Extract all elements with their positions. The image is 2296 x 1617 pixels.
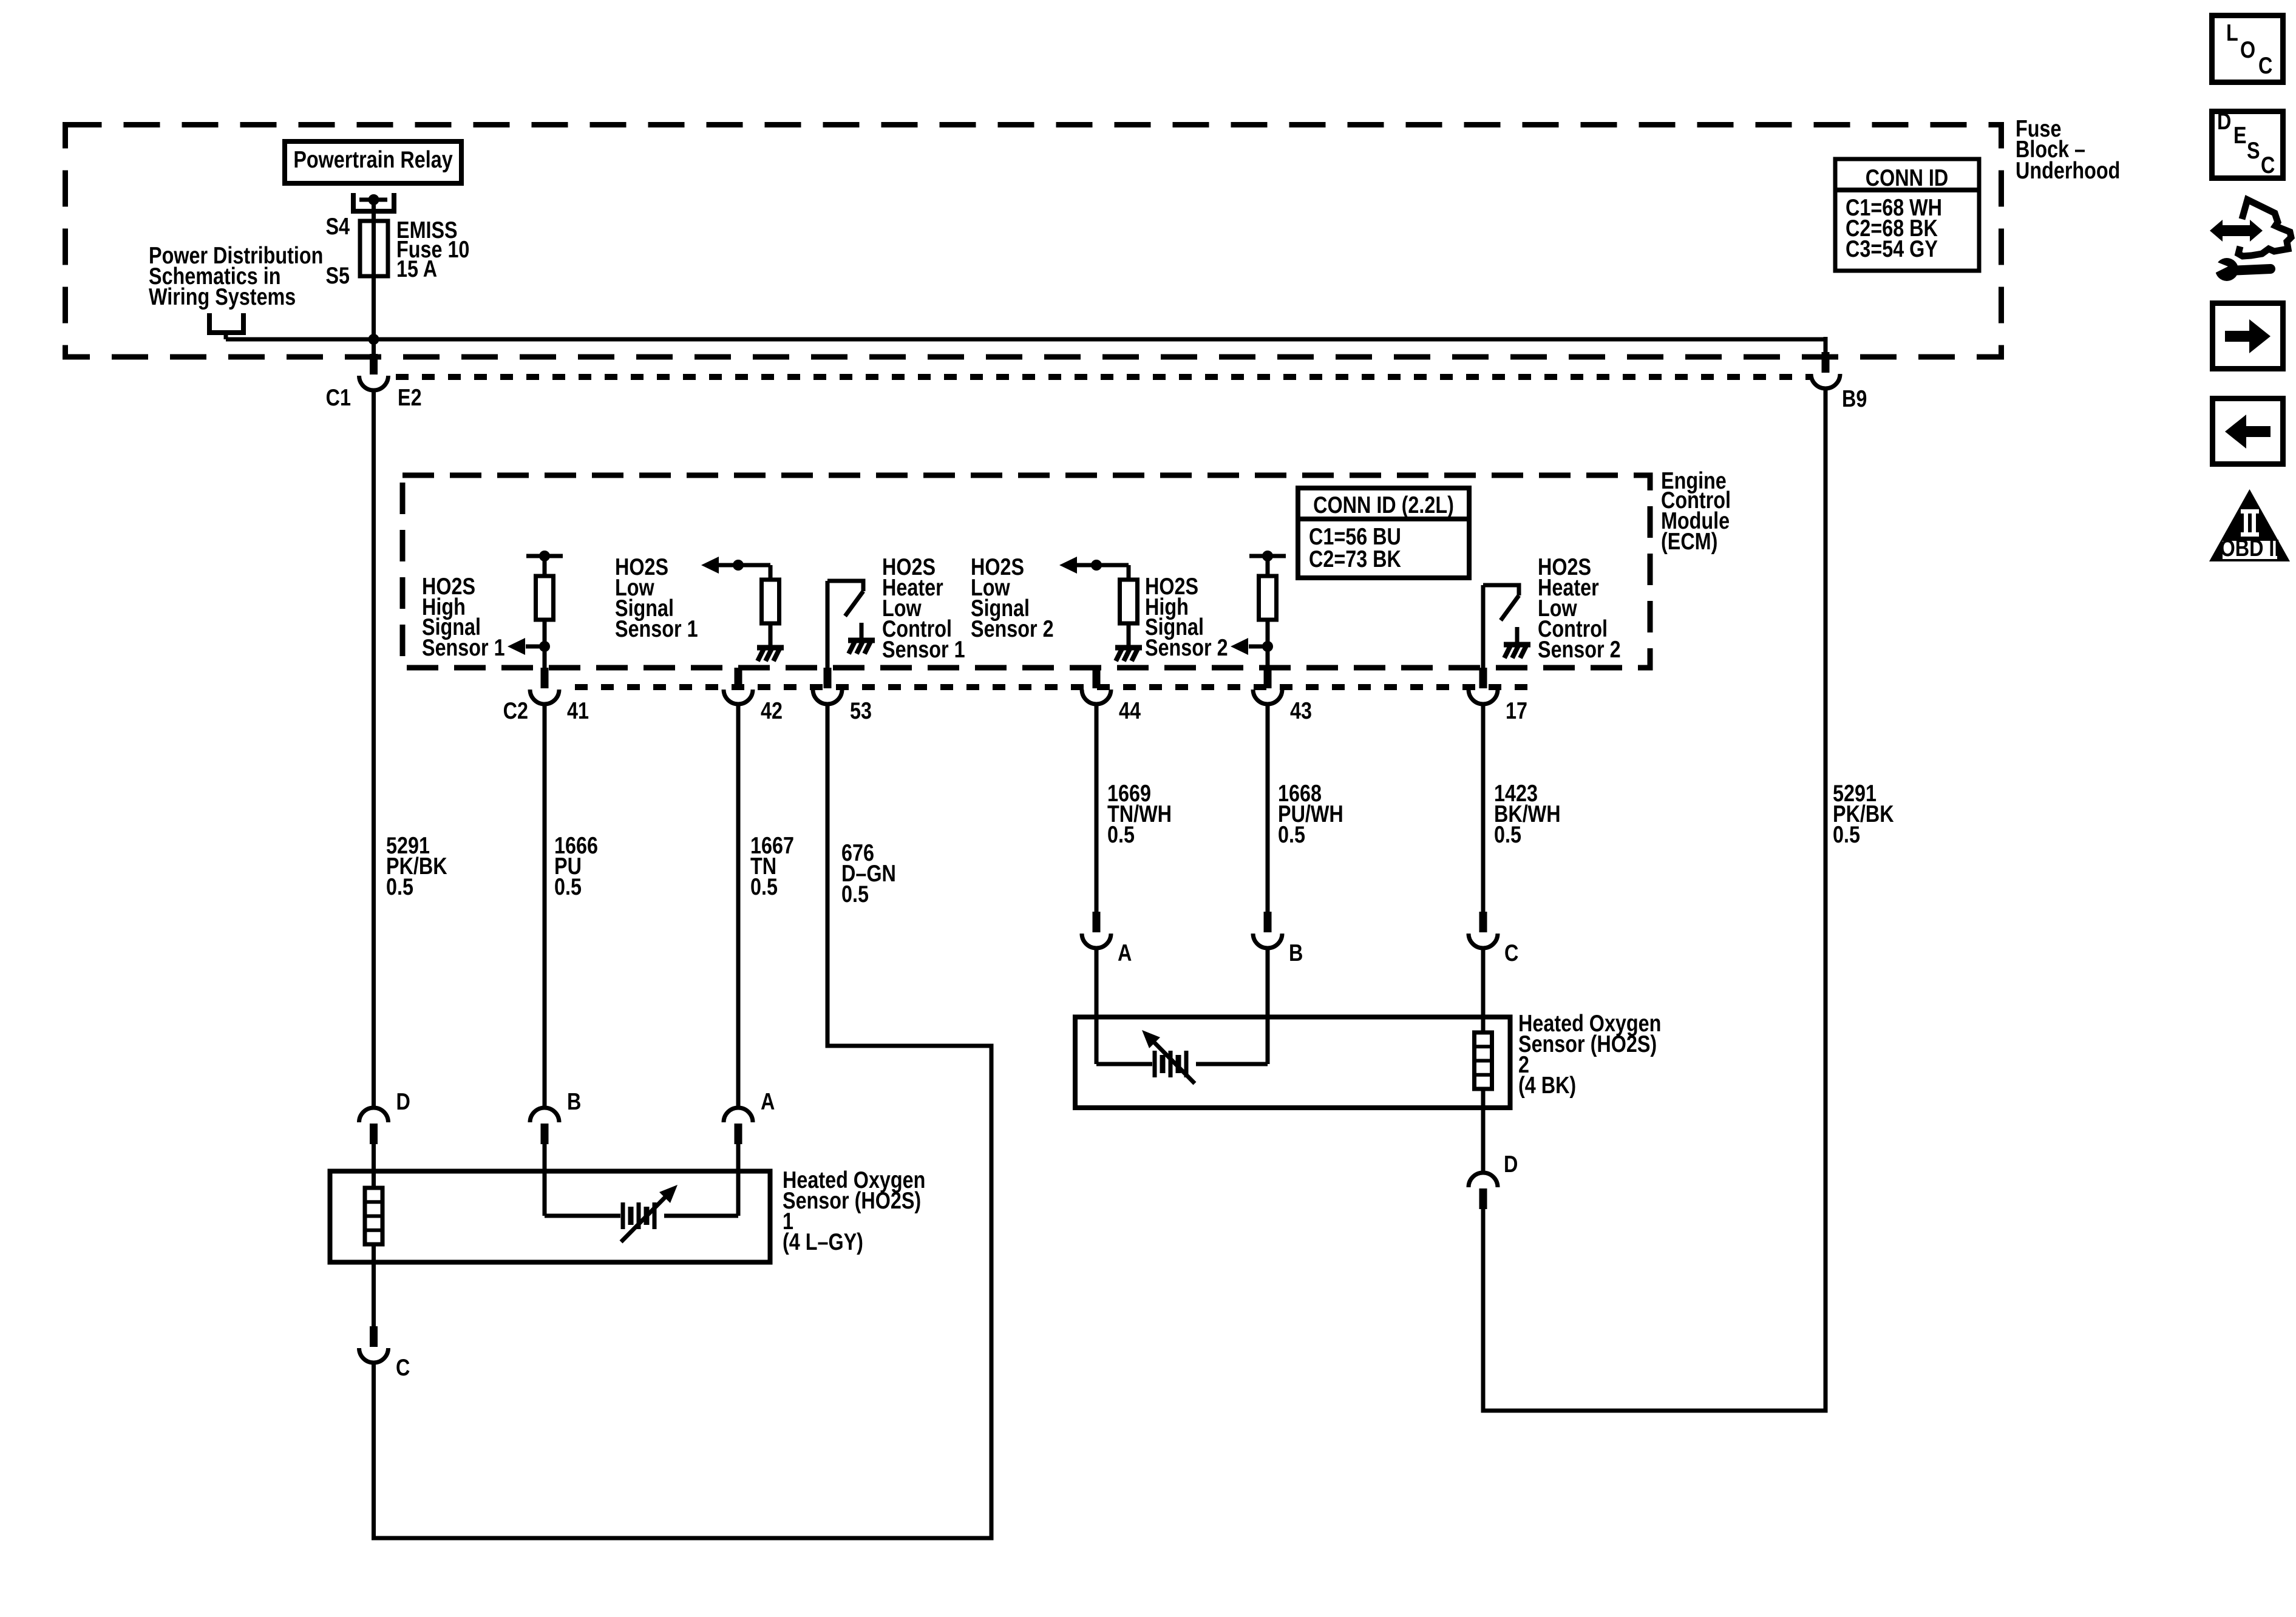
- svg-text:CONN ID: CONN ID: [1866, 164, 1949, 191]
- R-lo-2: resistor body: [1120, 580, 1138, 623]
- R-hi-1: junction dot top: [539, 551, 550, 561]
- icon: adjust hand with wrench: [2210, 200, 2291, 281]
- svg-text:L: L: [2226, 19, 2238, 46]
- svg-text:17: 17: [1506, 697, 1527, 724]
- R-hi-2: junction dot bottom: [1262, 641, 1273, 652]
- label: Fuse Block - Underhood: [2016, 115, 2120, 183]
- svg-text:0.5: 0.5: [1833, 821, 1860, 847]
- connector sensor2 pin D: [1479, 1188, 1487, 1209]
- R-hi-2: junction dot top: [1262, 551, 1273, 561]
- wire: bracket to bus: [224, 333, 228, 339]
- wire: sensor1 internal right lead: [664, 1214, 738, 1218]
- powertrain relay box: [285, 141, 461, 183]
- label: Power Distribution Schematics in Wiring Systems: [149, 242, 323, 310]
- svg-text:E2: E2: [398, 384, 422, 410]
- SW-1: driver switch: [827, 581, 863, 591]
- label: HO2S High Signal Sensor 1: [422, 573, 505, 660]
- svg-text:OBD II: OBD II: [2220, 535, 2280, 561]
- sensor1 cell: element plates: [621, 1202, 625, 1229]
- svg-text:Wiring Systems: Wiring Systems: [149, 283, 296, 310]
- svg-text:0.5: 0.5: [750, 873, 778, 900]
- dotted connector face line E2: [396, 374, 1810, 380]
- wire: [769, 623, 773, 645]
- icon: LOC box: [2212, 16, 2283, 83]
- svg-text:D: D: [1504, 1151, 1518, 1177]
- wire: [543, 556, 547, 576]
- wire 1667 TN: pin 42 to sensor1 A: [736, 702, 741, 1108]
- wire: [543, 620, 547, 668]
- svg-text:(ECM): (ECM): [1661, 528, 1717, 554]
- label: 1669 TN/WH 0.5: [1107, 780, 1172, 847]
- wire: A into sensor1: [736, 1144, 741, 1216]
- icon: arrow right box: [2213, 303, 2283, 369]
- svg-text:(4 L–GY): (4 L–GY): [783, 1229, 863, 1255]
- SW-2: ground stub: [1515, 627, 1520, 642]
- ground: [757, 645, 784, 651]
- sensor2 variable arrow: [1149, 1037, 1195, 1083]
- fuse block underhood dashed box: [66, 125, 2002, 358]
- svg-text:0.5: 0.5: [1278, 821, 1305, 847]
- label: HO2S High Signal Sensor 2: [1145, 573, 1228, 660]
- svg-text:(4 BK): (4 BK): [1518, 1072, 1576, 1098]
- sensor2: heater element: [1475, 1032, 1492, 1089]
- connector sensor2 pin B: [1264, 912, 1272, 932]
- CONN ID (2.2L) table: [1298, 488, 1469, 578]
- svg-text:Underhood: Underhood: [2016, 157, 2120, 183]
- svg-text:C2=73 BK: C2=73 BK: [1309, 546, 1401, 572]
- svg-text:B: B: [567, 1088, 581, 1114]
- icon: OBD II triangle: [2209, 489, 2290, 561]
- wire: sensor2 internal left lead: [1096, 1062, 1152, 1066]
- svg-text:CONN ID (2.2L): CONN ID (2.2L): [1313, 492, 1454, 518]
- svg-text:A: A: [1118, 940, 1132, 966]
- R-hi-1: signal tap arrow: [526, 645, 545, 649]
- R-lo-1: resistor body: [762, 580, 779, 623]
- label: 1423 BK/WH 0.5: [1494, 780, 1561, 847]
- wire: relay to fuse to bus: [372, 200, 376, 354]
- connector pin 43: [1264, 668, 1272, 688]
- wire: A into sensor2: [1095, 948, 1099, 1064]
- wire: B into sensor1: [543, 1144, 547, 1216]
- label: HO2S Low Signal Sensor 2: [971, 554, 1054, 642]
- svg-text:Sensor 2: Sensor 2: [1145, 634, 1228, 660]
- connector pin 41: [541, 668, 549, 688]
- R-hi-1: internal pull-up bar: [526, 554, 563, 558]
- svg-text:0.5: 0.5: [1494, 821, 1521, 847]
- label: 5291 PK/BK 0.5 (right): [1833, 780, 1894, 847]
- wire: sensor2 internal right lead: [1196, 1062, 1268, 1066]
- CONN ID table (fuse block): [1835, 159, 1979, 271]
- R-hi-1: resistor body: [536, 576, 554, 620]
- svg-text:Sensor 1: Sensor 1: [422, 634, 505, 660]
- SW-2: driver switch: [1483, 585, 1519, 595]
- svg-text:C: C: [1504, 940, 1518, 966]
- label: 1667 TN 0.5: [750, 832, 794, 900]
- wire 1668 PU/WH: pin 43 to sensor2 B: [1266, 702, 1270, 912]
- label: HO2S Low Signal Sensor 1: [615, 554, 698, 642]
- svg-text:53: 53: [850, 697, 872, 724]
- svg-text:E: E: [2233, 122, 2247, 148]
- label: 1666 PU 0.5: [554, 832, 598, 900]
- svg-text:C1: C1: [326, 384, 351, 410]
- connector sensor1 pin B: [541, 1124, 549, 1144]
- wire: sensor1 internal left lead: [545, 1214, 620, 1218]
- svg-text:A: A: [761, 1088, 775, 1114]
- wire: sensor1 heater to C: [372, 1244, 376, 1326]
- label: EMISS Fuse 10 15 A: [396, 217, 469, 282]
- node: bus junction dot: [369, 334, 379, 345]
- relay contact bracket: [353, 193, 394, 211]
- svg-text:S: S: [2247, 137, 2260, 163]
- svg-text:S4: S4: [325, 213, 350, 239]
- svg-text:D: D: [2217, 108, 2231, 134]
- wire: switch 1 to pin 53: [826, 581, 830, 668]
- wire: sensor2 heater to D: [1481, 1089, 1486, 1173]
- label: 1668 PU/WH 0.5: [1278, 780, 1343, 847]
- svg-text:0.5: 0.5: [841, 881, 869, 907]
- wire: feed bus: [226, 337, 1826, 342]
- svg-text:15 A: 15 A: [396, 256, 437, 282]
- svg-text:Sensor (HO2S): Sensor (HO2S): [1518, 1031, 1657, 1057]
- node S4 junction dot: [369, 194, 379, 205]
- label: HO2S Heater Low Control Sensor 2: [1538, 554, 1621, 662]
- svg-text:0.5: 0.5: [554, 873, 582, 900]
- svg-text:C: C: [396, 1354, 410, 1380]
- fuse F10 EMISS body: [360, 221, 388, 276]
- icon: DESC box: [2212, 112, 2283, 178]
- svg-text:Sensor 1: Sensor 1: [882, 636, 965, 662]
- sensor1 variable arrow: [621, 1196, 667, 1242]
- connector pin 17: [1479, 668, 1487, 688]
- svg-text:0.5: 0.5: [386, 873, 413, 900]
- label: Engine Control Module (ECM): [1661, 467, 1731, 554]
- connector sensor2 pin A: [1093, 912, 1101, 932]
- connector pin 44: [1093, 668, 1101, 688]
- label: Heated Oxygen Sensor (HO2S) 1 (4 L-GY): [783, 1167, 925, 1255]
- svg-text:C: C: [2258, 52, 2272, 78]
- connector pin 53: [824, 668, 832, 688]
- label: HO2S Heater Low Control Sensor 1: [882, 554, 965, 662]
- wire: [1127, 623, 1131, 645]
- R-hi-1: junction dot bottom: [539, 641, 550, 652]
- wire 5291 PK/BK right: B9 to sensor2 D: [1483, 388, 1826, 1411]
- R-hi-2: internal pull-up bar: [1249, 554, 1286, 558]
- sensor2 cell: element plates: [1153, 1051, 1157, 1077]
- wire 1666 PU: pin 41 to sensor1 B: [543, 702, 547, 1108]
- svg-text:C2: C2: [503, 697, 528, 724]
- wire: [1266, 556, 1270, 576]
- svg-text:C: C: [2261, 152, 2275, 178]
- connector sensor1 pin C: [370, 1326, 378, 1347]
- label: 5291 PK/BK 0.5: [386, 832, 447, 900]
- R-hi-2: resistor body: [1259, 576, 1277, 620]
- ground: [1115, 645, 1142, 651]
- wire: [769, 565, 773, 580]
- label: Heated Oxygen Sensor (HO2S) 2 (4 BK): [1518, 1010, 1661, 1098]
- svg-text:41: 41: [567, 697, 589, 724]
- R-lo-1: signal tap arrow: [701, 557, 719, 574]
- wire: switch 2 to pin 17: [1481, 585, 1486, 668]
- connector sensor2 pin C: [1479, 912, 1487, 932]
- svg-text:B9: B9: [1842, 385, 1867, 412]
- label: 676 D-GN 0.5: [841, 839, 896, 907]
- svg-text:D: D: [396, 1088, 410, 1114]
- svg-text:C3=54 GY: C3=54 GY: [1846, 236, 1938, 262]
- icon: arrow left box: [2213, 399, 2283, 464]
- R-hi-2: signal tap arrow: [1249, 645, 1268, 649]
- connector sensor1 pin A: [735, 1124, 742, 1144]
- connector sensor1 pin D: [370, 1124, 378, 1144]
- sensor1: heater element: [365, 1188, 382, 1244]
- connector B9: [1824, 337, 1828, 352]
- heated oxygen sensor 2 box: [1075, 1017, 1510, 1108]
- wire: B into sensor2: [1266, 948, 1270, 1064]
- dotted connector face line C2: [575, 684, 1530, 690]
- wire 676 D-GN: pin 53 loop to sensor1 C: [374, 702, 992, 1538]
- R-lo-2: junction dot: [1091, 560, 1102, 571]
- svg-text:43: 43: [1290, 697, 1312, 724]
- R-lo-1: junction dot: [733, 560, 744, 571]
- wire 5291 PK/BK left: C1 to sensor1 D: [372, 390, 376, 1108]
- svg-text:Sensor 2: Sensor 2: [1538, 636, 1621, 662]
- svg-text:42: 42: [761, 697, 783, 724]
- svg-text:Sensor 2: Sensor 2: [971, 615, 1054, 642]
- connector C1/E2: [370, 354, 378, 375]
- wire 1669 TN/WH: pin 44 to sensor2 A: [1095, 702, 1099, 912]
- wire: C into sensor2 heater: [1481, 948, 1486, 1032]
- R-lo-2: signal tap arrow: [1059, 557, 1077, 574]
- wire: D into sensor1 heater: [372, 1144, 376, 1188]
- engine control module dashed box: [402, 475, 1650, 668]
- off-page reference bracket: [209, 313, 243, 333]
- ground: [1504, 642, 1530, 648]
- svg-text:O: O: [2240, 36, 2255, 63]
- wire 1423 BK/WH: pin 17 to sensor2 C: [1481, 702, 1486, 912]
- svg-text:Sensor 1: Sensor 1: [615, 615, 698, 642]
- wire: [1266, 620, 1270, 668]
- SW-1: ground stub: [860, 623, 864, 638]
- connector pin 42: [735, 668, 742, 688]
- svg-text:S5: S5: [325, 262, 350, 288]
- svg-text:44: 44: [1119, 697, 1141, 724]
- wire: [1127, 565, 1131, 580]
- svg-text:B: B: [1289, 940, 1303, 966]
- svg-text:0.5: 0.5: [1107, 821, 1135, 847]
- ground: [848, 638, 875, 643]
- svg-text:Sensor (HO2S): Sensor (HO2S): [783, 1187, 921, 1213]
- heated oxygen sensor 1 box: [330, 1171, 770, 1263]
- svg-text:Powertrain Relay: Powertrain Relay: [293, 146, 453, 172]
